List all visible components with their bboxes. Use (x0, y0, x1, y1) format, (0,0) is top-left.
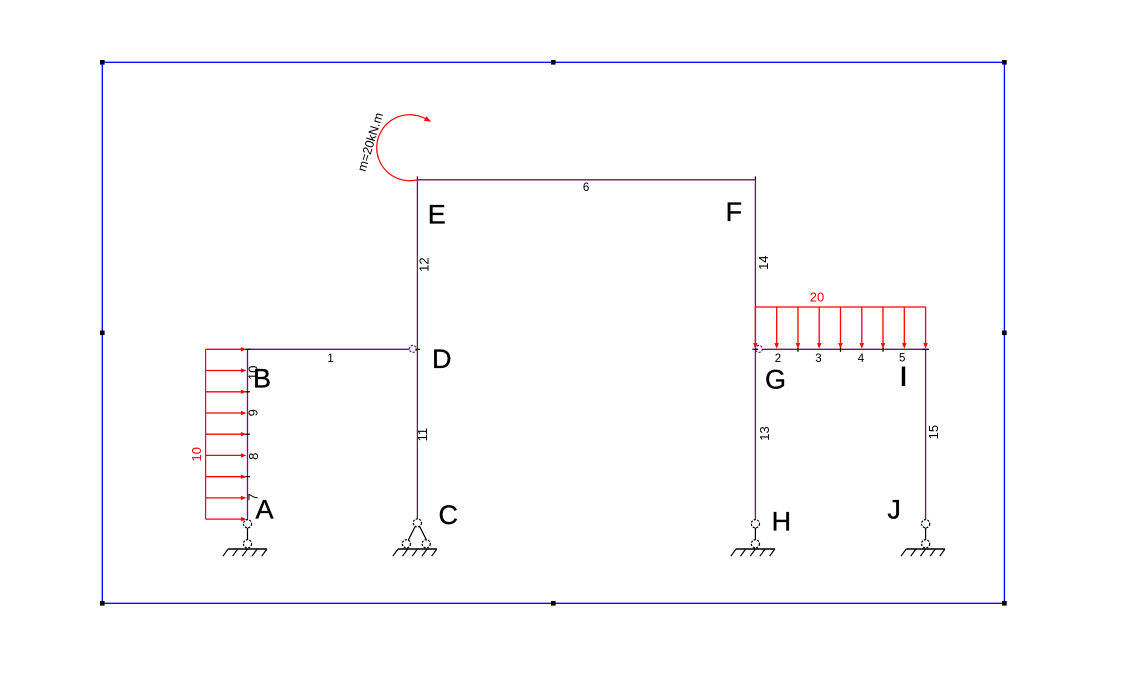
node tick on left column 1 (245, 391, 250, 393)
svg-text:F: F (726, 197, 743, 227)
moment arc m=20kN.m (377, 115, 425, 181)
node tick on left column 3 (245, 476, 250, 478)
node tick on left column 2 (245, 433, 250, 435)
node tick at E (416, 176, 418, 179)
member number 14 (756, 255, 771, 269)
svg-text:14: 14 (756, 255, 771, 269)
svg-text:1: 1 (327, 353, 333, 365)
selection handle bottom-right (1002, 601, 1007, 606)
node tick at B (245, 348, 251, 350)
member number 8 (246, 453, 261, 460)
link support at node A (243, 520, 251, 528)
node tick on beam GI 1 (797, 347, 799, 352)
svg-text:6: 6 (583, 182, 589, 194)
selection handle left-mid (100, 331, 105, 336)
load arrow 6 of q=10 (206, 454, 242, 456)
load value label 10 (189, 447, 204, 461)
member number 13 (757, 426, 772, 440)
svg-text:I: I (900, 362, 908, 392)
distributed load q=10 left edge line (205, 349, 207, 519)
selection handle top-mid (551, 60, 556, 65)
load arrow 6 of q=20 (861, 307, 863, 344)
load arrow 4 of q=20 (818, 307, 820, 344)
member 1 beam B to D (248, 348, 410, 350)
member number 15 (926, 425, 941, 439)
load arrow 9 of q=10 (206, 518, 242, 520)
load arrow 3 of q=10 (206, 391, 242, 393)
svg-text:3: 3 (815, 353, 821, 365)
node tick on beam GI 2 (840, 347, 842, 352)
svg-text:4: 4 (858, 353, 865, 365)
load arrow 5 of q=20 (840, 307, 842, 344)
svg-text:A: A (256, 495, 274, 525)
member 13 column G to H (754, 349, 756, 519)
hinge circle at node D (409, 345, 416, 352)
svg-text:B: B (253, 363, 271, 393)
load arrow 5 of q=10 (206, 433, 242, 435)
node tick at F (754, 176, 756, 179)
members 2-3-4-5 beam G to I (762, 348, 927, 350)
member number 12 (417, 257, 432, 271)
load arrow 7 of q=20 (882, 307, 884, 344)
selection rectangle (102, 62, 1004, 603)
svg-text:9: 9 (246, 409, 261, 416)
load arrow 8 of q=10 (206, 497, 242, 499)
svg-text:11: 11 (415, 428, 430, 442)
selection handle right-mid (1002, 331, 1007, 336)
link support at node J (922, 520, 930, 528)
load arrow 2 of q=20 (776, 307, 778, 344)
member 15 column I to J (925, 349, 927, 519)
svg-text:G: G (765, 365, 786, 395)
node tick at D (415, 348, 420, 350)
load arrow 3 of q=20 (797, 307, 799, 344)
node tick on beam GI 3 (882, 347, 884, 352)
load arrow 2 of q=10 (206, 370, 242, 372)
member number 10 (246, 366, 261, 380)
node tick at G (752, 348, 758, 350)
distributed load q=20 top edge line (755, 306, 925, 308)
link support at node H (751, 520, 759, 528)
load arrow 9 of q=20 (925, 307, 927, 344)
svg-text:D: D (432, 344, 452, 374)
selection handle top-right (1002, 60, 1007, 65)
svg-text:8: 8 (246, 453, 261, 460)
member number 9 (246, 409, 261, 416)
member 12 column E to D (416, 180, 418, 349)
member 6 beam E to F (417, 179, 755, 181)
load arrow 4 of q=10 (206, 412, 242, 414)
svg-text:C: C (439, 500, 459, 530)
member number 11 (415, 428, 430, 442)
member 10-9-8-7 left column B to A (247, 349, 249, 519)
svg-text:15: 15 (926, 425, 941, 439)
member 11 column D to C (416, 349, 418, 519)
moment arrowhead (424, 116, 431, 121)
load arrow 1 of q=20 (754, 307, 756, 344)
member number 7 (246, 493, 261, 500)
svg-text:2: 2 (775, 353, 781, 365)
svg-text:10: 10 (189, 447, 204, 461)
load arrow 8 of q=20 (903, 307, 905, 344)
member 14 column F to G (754, 180, 756, 349)
svg-text:E: E (428, 200, 446, 230)
pin support at node C (413, 519, 421, 527)
load arrow 1 of q=10 (206, 348, 242, 350)
load arrow 7 of q=10 (206, 476, 242, 478)
hinge circle at node G (755, 345, 762, 352)
svg-text:13: 13 (757, 426, 772, 440)
selection handle top-left (100, 60, 105, 65)
node tick at I (922, 348, 929, 350)
svg-text:20: 20 (810, 289, 824, 304)
svg-text:12: 12 (417, 257, 432, 271)
selection handle bottom-left (100, 601, 105, 606)
svg-text:J: J (887, 495, 901, 525)
svg-text:H: H (772, 506, 792, 536)
selection handle bottom-mid (551, 601, 556, 606)
